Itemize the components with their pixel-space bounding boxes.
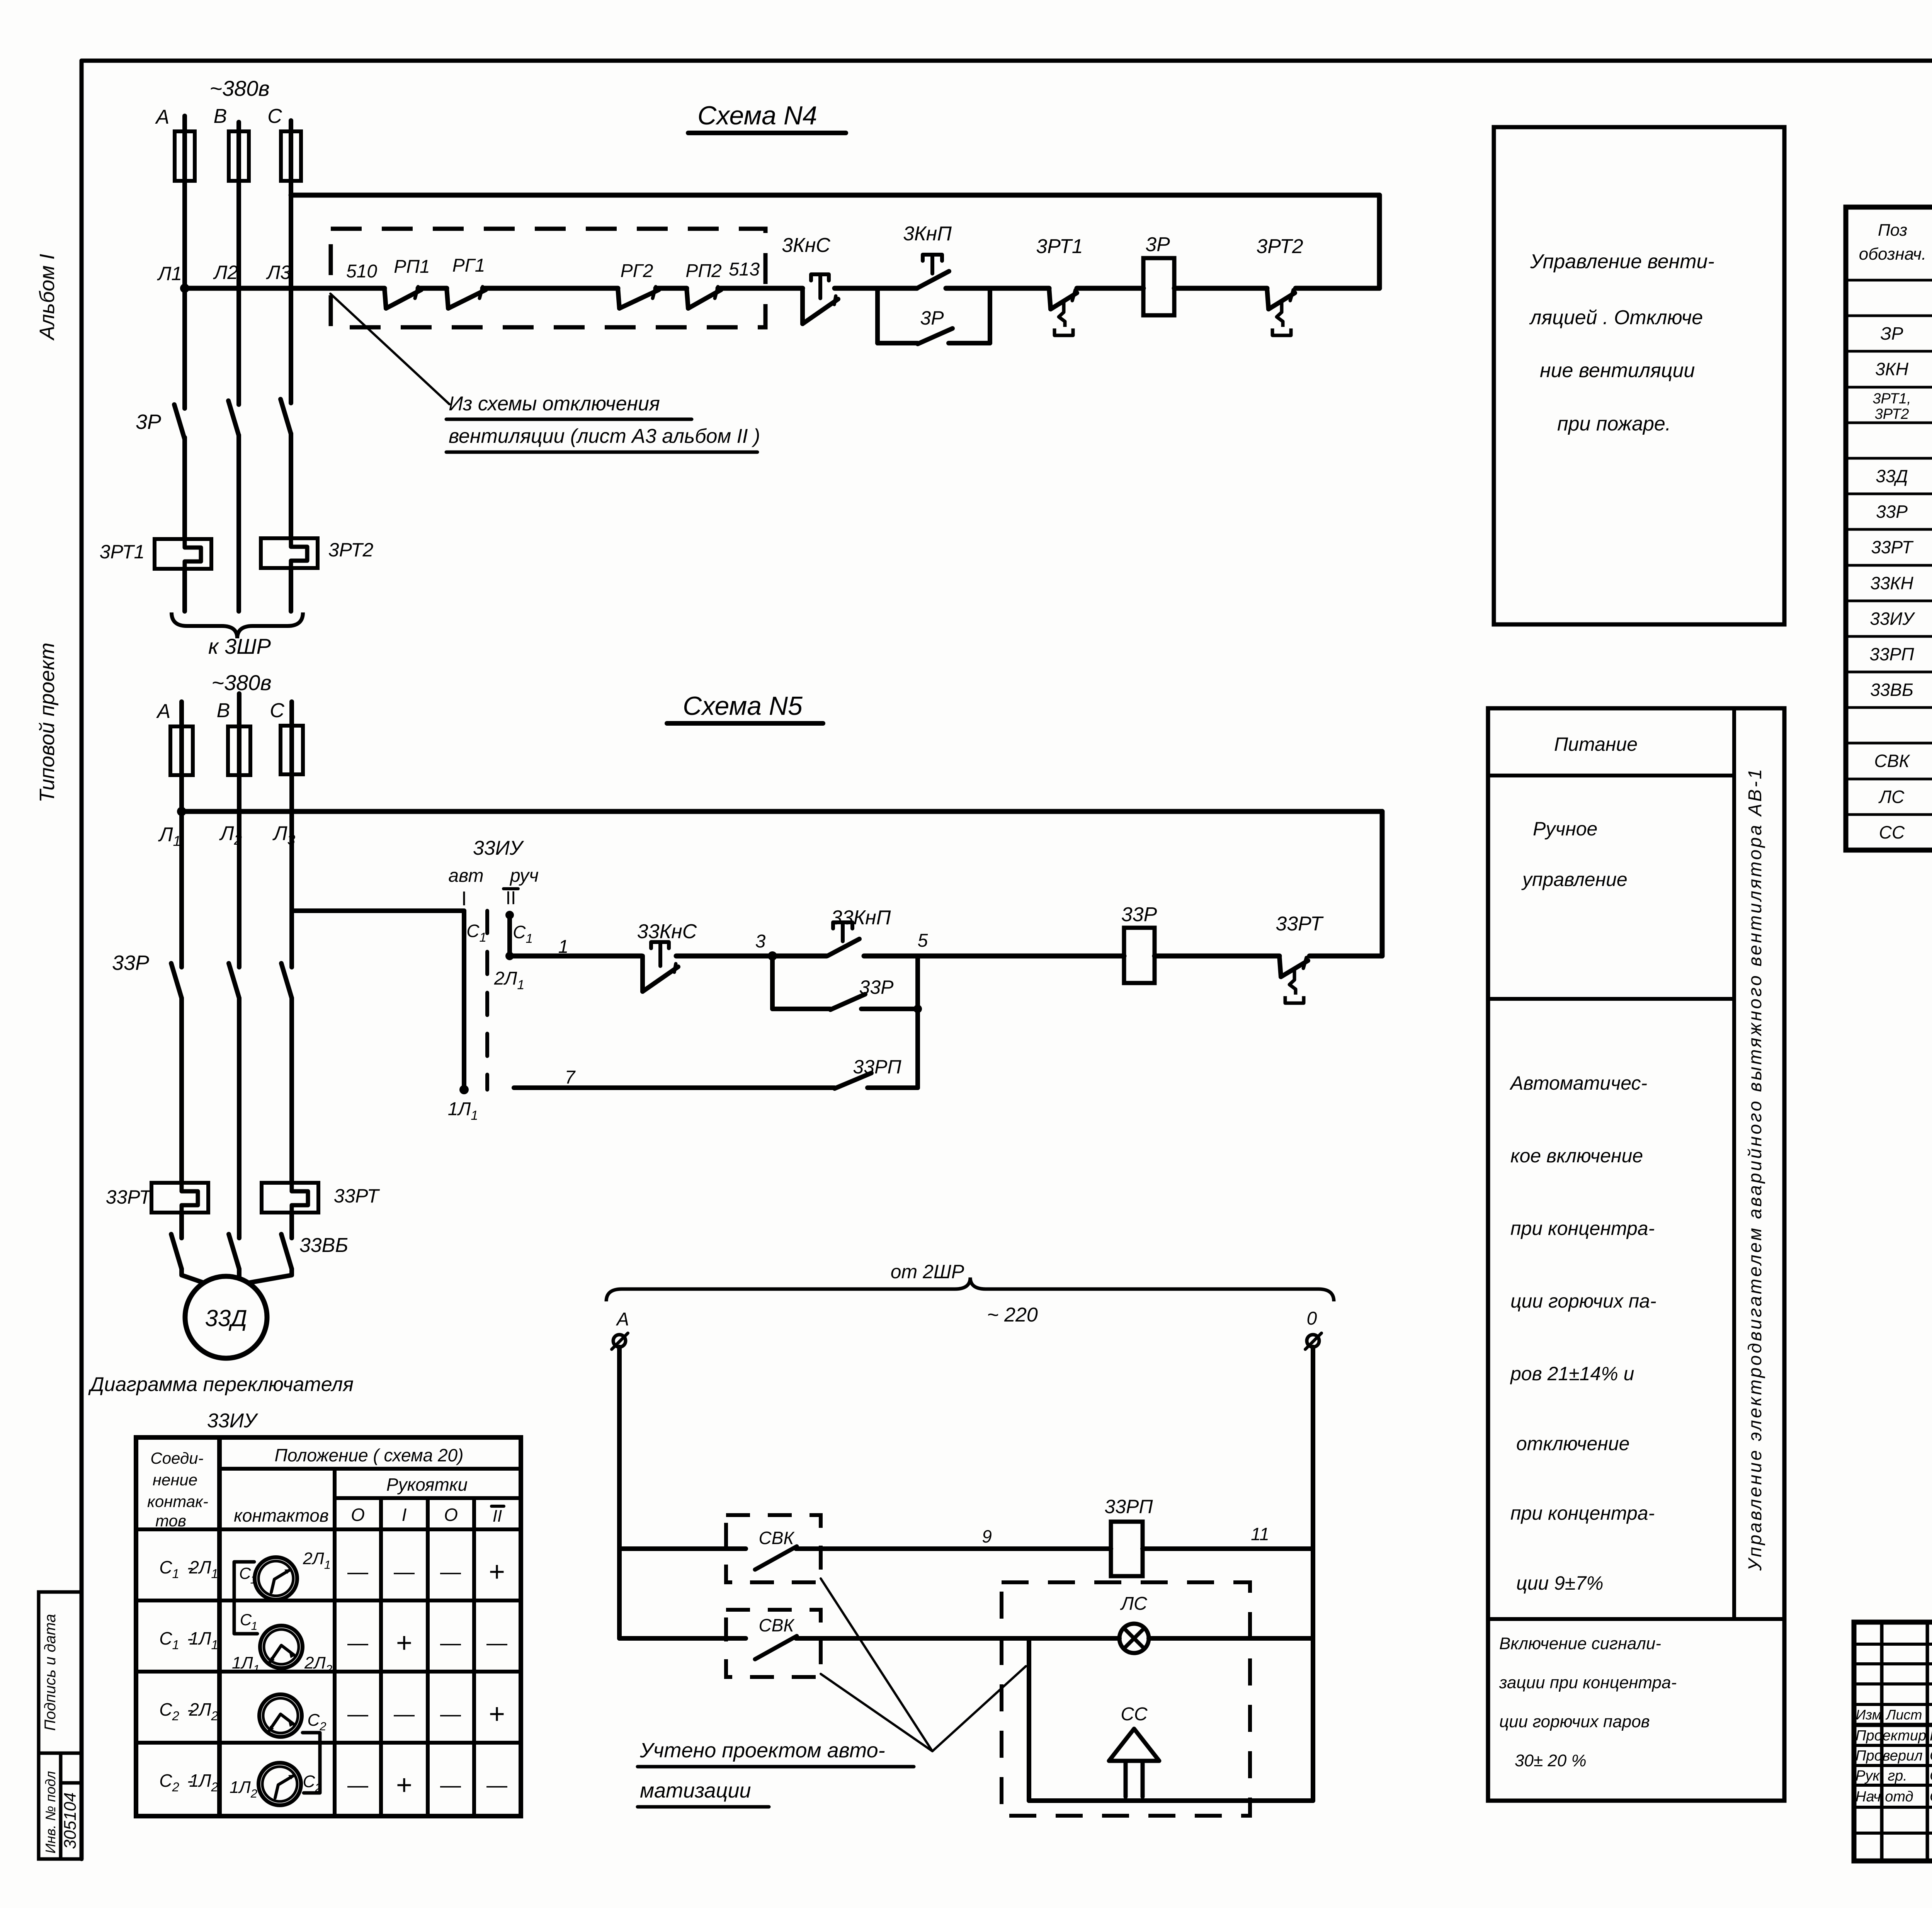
contact РГ2 xyxy=(618,288,619,308)
wire to motor Л1 xyxy=(182,1269,204,1283)
svg-text:+: + xyxy=(396,1628,412,1658)
svg-text:матизации: матизации xyxy=(640,1779,751,1802)
svg-text:513: 513 xyxy=(729,259,760,280)
switch 33ВБ phase Л3 xyxy=(281,1234,292,1269)
svg-text:В: В xyxy=(217,699,230,722)
svg-text:1: 1 xyxy=(250,1573,257,1586)
svg-text:Л3: Л3 xyxy=(266,262,291,283)
svg-text:Л1: Л1 xyxy=(158,823,181,849)
svg-text:управление: управление xyxy=(1521,869,1628,890)
contact 3Р phase Л2 xyxy=(228,401,239,435)
svg-text:Нач.отд: Нач.отд xyxy=(1855,1789,1913,1805)
contact РГ1 xyxy=(447,288,448,308)
svg-text:РГ1: РГ1 xyxy=(452,255,485,276)
svg-text:Инв. № подл: Инв. № подл xyxy=(43,1771,58,1853)
svg-text:Схема N5: Схема N5 xyxy=(683,691,803,721)
dashed boundary box (fire-off circuit) xyxy=(331,229,765,327)
svg-text:33Р: 33Р xyxy=(1121,903,1157,926)
svg-text:2Л1: 2Л1 xyxy=(303,1549,331,1572)
node 3 dot xyxy=(768,951,777,961)
svg-text:~ 220: ~ 220 xyxy=(987,1304,1038,1326)
contact 33РП xyxy=(835,1073,871,1089)
svg-text:СС: СС xyxy=(1121,1704,1148,1725)
link bracket С2 xyxy=(303,1733,320,1793)
svg-text:—: — xyxy=(440,1774,461,1797)
wire to motor Л3 xyxy=(248,1269,292,1283)
svg-text:авт: авт xyxy=(448,866,483,886)
brace к 3ШР xyxy=(172,612,303,638)
fuse phase A (N5) xyxy=(170,726,193,775)
svg-text:С2: С2 xyxy=(159,1771,179,1794)
svg-text:—: — xyxy=(486,1774,507,1797)
fuse phase B (N4) xyxy=(229,131,249,181)
svg-text:СС: СС xyxy=(1879,822,1905,842)
node dot Л1 (N5) xyxy=(177,807,186,816)
wire left drop (A) xyxy=(617,1347,622,1638)
svg-text:Сидельникова: Сидельникова xyxy=(1930,1748,1932,1764)
svg-text:—: — xyxy=(440,1631,461,1655)
svg-text:510: 510 xyxy=(346,261,377,282)
svg-text:—: — xyxy=(347,1774,368,1797)
wire phase B (N5) xyxy=(237,694,241,967)
svg-text:Альбом I: Альбом I xyxy=(36,254,59,341)
svg-text:—: — xyxy=(440,1560,461,1583)
node Л1 junction dot xyxy=(180,284,189,293)
wire Л2 lower (N4) xyxy=(236,435,241,611)
wire control bus (N4) xyxy=(185,286,384,291)
wire to motor Л2 xyxy=(237,1269,241,1277)
fuse phase A (N4) xyxy=(175,131,195,181)
svg-text:С1: С1 xyxy=(159,1628,179,1652)
svg-text:ции горючих па-: ции горючих па- xyxy=(1510,1290,1656,1312)
callout leader (N4) xyxy=(330,294,449,404)
title block frame xyxy=(1854,1622,1932,1861)
svg-text:Лист: Лист xyxy=(1886,1707,1922,1723)
svg-text:Управление венти-: Управление венти- xyxy=(1530,250,1714,273)
wire 3Р self-hold branch xyxy=(875,288,880,343)
switch 33ИУ contact I (авт) xyxy=(462,911,466,1090)
svg-text:~380в: ~380в xyxy=(209,76,269,100)
svg-text:С1: С1 xyxy=(466,921,486,944)
note box 2 (режимы) xyxy=(1488,708,1784,1801)
svg-text:Питание: Питание xyxy=(1554,733,1638,755)
contact 33Р (self-hold) xyxy=(830,994,865,1010)
svg-text:С2: С2 xyxy=(159,1699,179,1723)
svg-text:ции горючих паров: ции горючих паров xyxy=(1499,1712,1650,1731)
thermal contact 3РТ2 xyxy=(1267,288,1269,309)
wire top bus from phase C (N4) xyxy=(291,193,1379,198)
contact СВК 1 xyxy=(755,1546,797,1570)
svg-text:ров 21±14% и: ров 21±14% и xyxy=(1510,1363,1634,1384)
svg-text:33РП: 33РП xyxy=(1869,644,1914,664)
svg-text:отключение: отключение xyxy=(1516,1433,1629,1454)
svg-text:305104: 305104 xyxy=(61,1793,80,1849)
svg-text:А: А xyxy=(155,106,170,128)
svg-text:Автоматичес-: Автоматичес- xyxy=(1509,1072,1647,1094)
svg-text:при концентра-: при концентра- xyxy=(1510,1218,1655,1239)
switch diagram circle С1-1Л1 xyxy=(260,1626,303,1668)
svg-text:33РП: 33РП xyxy=(1104,1496,1153,1517)
switch diagram circle С2-2Л2 xyxy=(259,1694,302,1737)
svg-text:3Р: 3Р xyxy=(920,307,944,329)
wire right drop (0) xyxy=(1311,1347,1315,1801)
svg-text:А: А xyxy=(616,1309,629,1330)
wire phase C (N4) xyxy=(289,121,293,403)
contact СВК 2 xyxy=(755,1636,797,1659)
svg-text:11: 11 xyxy=(1251,1524,1269,1544)
svg-text:нение: нение xyxy=(153,1471,197,1489)
dashed box СВК 2 xyxy=(726,1610,821,1677)
svg-text:Схема N4: Схема N4 xyxy=(697,101,817,130)
wire phase B (N4) xyxy=(236,122,241,405)
svg-text:С1: С1 xyxy=(159,1557,179,1581)
fuse phase C (N5) xyxy=(281,726,303,774)
svg-text:1Л1: 1Л1 xyxy=(448,1099,478,1123)
svg-text:1: 1 xyxy=(251,1620,258,1633)
svg-text:Диаграмма переключателя: Диаграмма переключателя xyxy=(88,1373,354,1396)
pushbutton 3КнП xyxy=(917,271,949,288)
svg-text:2Л1: 2Л1 xyxy=(494,968,525,992)
wire 33Р self-hold branch xyxy=(770,956,775,1009)
wire Л2 mid (N5) xyxy=(237,998,241,1238)
svg-text:3Р: 3Р xyxy=(1145,233,1170,256)
svg-text:С1: С1 xyxy=(513,922,533,946)
link bracket С1 xyxy=(234,1562,257,1634)
coil 33Р xyxy=(1124,928,1155,983)
svg-text:—: — xyxy=(347,1631,368,1655)
svg-text:ЛС: ЛС xyxy=(1120,1594,1147,1614)
svg-text:Учтено проектом авто-: Учтено проектом авто- xyxy=(639,1739,885,1762)
svg-text:~380в: ~380в xyxy=(211,670,271,695)
svg-text:Соеди-: Соеди- xyxy=(150,1449,203,1467)
callout leaders xyxy=(821,1578,932,1751)
pushbutton 33КнП xyxy=(827,939,859,956)
svg-text:Типовой проект: Типовой проект xyxy=(36,643,59,803)
dashed box automation xyxy=(1002,1582,1250,1816)
svg-text:2Л1: 2Л1 xyxy=(189,1557,218,1581)
svg-text:СВК: СВК xyxy=(759,1615,795,1635)
svg-text:I: I xyxy=(461,888,467,910)
svg-text:—: — xyxy=(394,1560,415,1583)
wire phase C (N5) xyxy=(289,702,294,967)
svg-text:1Л1: 1Л1 xyxy=(189,1628,218,1652)
svg-text:33ИУ: 33ИУ xyxy=(473,837,524,859)
contact 3Р (self-hold) xyxy=(918,328,952,344)
note box 1 (Управление вентиляцией) xyxy=(1494,127,1784,624)
svg-text:С: С xyxy=(239,1564,251,1582)
contact РП2 xyxy=(687,288,688,308)
svg-text:РП1: РП1 xyxy=(394,257,430,277)
svg-text:33Р: 33Р xyxy=(112,951,149,975)
svg-text:обознач.: обознач. xyxy=(1859,245,1926,264)
svg-text:33Р: 33Р xyxy=(859,976,894,998)
switch 33ИУ contact II (руч) xyxy=(505,911,514,919)
svg-text:СВК: СВК xyxy=(759,1528,795,1548)
wire rung 1 (N5 control) xyxy=(510,954,642,959)
switch diagram circle С2-1Л2 xyxy=(259,1763,301,1805)
svg-text:Л2: Л2 xyxy=(213,262,238,283)
svg-text:1Л2: 1Л2 xyxy=(189,1771,218,1794)
svg-text:33КнП: 33КнП xyxy=(831,907,891,929)
coil 33РП xyxy=(1111,1522,1143,1576)
svg-text:С: С xyxy=(267,105,282,128)
svg-text:СВК: СВК xyxy=(1874,751,1910,771)
parts table frame xyxy=(1846,207,1932,850)
svg-text:5: 5 xyxy=(918,930,928,951)
svg-text:30± 20 %: 30± 20 % xyxy=(1515,1751,1587,1770)
svg-text:33Д: 33Д xyxy=(1876,466,1908,486)
svg-text:С2: С2 xyxy=(307,1711,326,1733)
svg-text:3РТ1: 3РТ1 xyxy=(100,541,145,563)
svg-text:1Л2: 1Л2 xyxy=(230,1778,257,1800)
svg-text:ЗР: ЗР xyxy=(1881,323,1903,344)
svg-text:I: I xyxy=(402,1505,407,1525)
switch diagram circle С1-2Л1 xyxy=(255,1557,297,1600)
wire Л1 below heater xyxy=(179,1213,184,1238)
svg-text:33ИУ: 33ИУ xyxy=(207,1410,259,1432)
svg-text:33КН: 33КН xyxy=(1870,573,1913,593)
switch 33ВБ phase Л1 xyxy=(171,1234,182,1269)
svg-text:33ВБ: 33ВБ xyxy=(1870,680,1913,700)
thermal contact 3РТ1 xyxy=(1049,288,1051,309)
svg-text:33РТ: 33РТ xyxy=(106,1186,152,1208)
contact 33Р phase Л1 xyxy=(171,963,182,998)
svg-text:3КнС: 3КнС xyxy=(782,234,830,257)
svg-text:33РТ: 33РТ xyxy=(1871,537,1913,557)
svg-text:при концентра-: при концентра- xyxy=(1510,1502,1655,1524)
svg-text:Поз: Поз xyxy=(1878,221,1907,240)
svg-text:3РТ2: 3РТ2 xyxy=(1256,235,1303,258)
svg-text:3КнП: 3КнП xyxy=(903,223,952,245)
svg-text:ции 9±7%: ции 9±7% xyxy=(1516,1572,1604,1594)
thermal relay 33РТ heater (Л1) xyxy=(151,1183,208,1213)
svg-text:3Р: 3Р xyxy=(136,410,161,434)
svg-text:Изм: Изм xyxy=(1856,1707,1882,1723)
svg-text:33РТ: 33РТ xyxy=(1276,913,1324,935)
brace от 2ШР xyxy=(606,1277,1334,1301)
svg-text:+: + xyxy=(489,1699,505,1730)
svg-text:+: + xyxy=(396,1770,412,1801)
svg-text:Рук. гр.: Рук. гр. xyxy=(1855,1768,1907,1784)
svg-text:—: — xyxy=(440,1703,461,1726)
wire rung СВК-33РП xyxy=(619,1546,746,1551)
svg-text:О: О xyxy=(444,1505,458,1525)
svg-text:РГ2: РГ2 xyxy=(621,261,653,281)
svg-text:зации при концентра-: зации при концентра- xyxy=(1499,1673,1677,1692)
svg-text:ЛС: ЛС xyxy=(1878,787,1905,807)
svg-text:руч: руч xyxy=(509,866,539,886)
fuse phase B (N5) xyxy=(228,726,250,775)
svg-text:33Р: 33Р xyxy=(1876,502,1908,522)
wire top bus (N5) xyxy=(182,809,1382,814)
wire Л3 below heater xyxy=(289,1213,294,1238)
svg-text:Подпись и дата: Подпись и дата xyxy=(42,1614,59,1731)
svg-text:кое включение: кое включение xyxy=(1510,1145,1643,1167)
svg-text:Сидельникова: Сидельникова xyxy=(1930,1768,1932,1784)
svg-text:Положение ( схема 20): Положение ( схема 20) xyxy=(275,1445,464,1465)
wire rung 7 (33РП) xyxy=(514,1085,835,1090)
svg-text:II: II xyxy=(493,1507,502,1526)
svg-text:Управление электродвигателем: Управление электродвигателем аварийного … xyxy=(1745,767,1765,1571)
svg-text:О: О xyxy=(351,1505,365,1525)
sheet frame xyxy=(82,59,1932,63)
thermal relay 3РТ1 heater xyxy=(155,539,211,569)
svg-text:к 3ШР: к 3ШР xyxy=(208,634,271,658)
switch 33ИУ dashed link xyxy=(485,911,489,1090)
svg-text:3РТ2: 3РТ2 xyxy=(328,539,374,561)
svg-text:7: 7 xyxy=(565,1067,576,1088)
svg-text:В: В xyxy=(214,105,227,128)
switch table frame xyxy=(136,1437,521,1816)
wire rung СВК-ЛС xyxy=(619,1636,746,1641)
wire Л3 lower (N4) xyxy=(289,434,293,539)
switch 33ВБ phase Л2 xyxy=(229,1234,239,1269)
svg-text:0: 0 xyxy=(1307,1308,1317,1329)
svg-text:—: — xyxy=(347,1560,368,1583)
svg-text:1: 1 xyxy=(558,937,569,957)
svg-text:ляцией . Отключе: ляцией . Отключе xyxy=(1529,306,1703,329)
svg-text:Проектир: Проектир xyxy=(1855,1728,1926,1744)
svg-text:33ИУ: 33ИУ xyxy=(1870,609,1915,629)
svg-text:Из схемы отключения: Из схемы отключения xyxy=(449,393,660,415)
svg-text:2Л2: 2Л2 xyxy=(189,1699,218,1723)
svg-text:Обермейстер: Обермейстер xyxy=(1930,1789,1932,1805)
svg-text:3РТ1: 3РТ1 xyxy=(1036,235,1083,258)
svg-text:3РТ2: 3РТ2 xyxy=(1875,406,1909,422)
wire siren branch xyxy=(1027,1638,1031,1801)
svg-text:при пожаре.: при пожаре. xyxy=(1557,413,1671,435)
svg-text:—: — xyxy=(486,1631,507,1655)
svg-text:33РТ: 33РТ xyxy=(334,1185,380,1207)
pushbutton 33КнС xyxy=(640,956,645,992)
wire Л1 mid (N5) xyxy=(179,998,184,1183)
thermal contact 33РТ xyxy=(1279,956,1281,977)
wire phase A (N5) xyxy=(179,702,184,967)
svg-text:3: 3 xyxy=(755,931,766,952)
svg-text:Рукоятки: Рукоятки xyxy=(386,1475,468,1495)
wire phase A (N4) xyxy=(182,116,187,408)
svg-text:С: С xyxy=(270,699,284,722)
coil 3Р xyxy=(1143,258,1174,315)
svg-text:—: — xyxy=(347,1703,368,1726)
svg-text:33ВБ: 33ВБ xyxy=(299,1234,348,1257)
svg-text:9: 9 xyxy=(982,1526,992,1546)
dashed box СВК 1 xyxy=(726,1515,821,1582)
svg-text:ние вентиляции: ние вентиляции xyxy=(1540,359,1695,382)
margin stamp boxes xyxy=(39,1592,82,1859)
svg-text:—: — xyxy=(394,1703,415,1726)
svg-text:33РП: 33РП xyxy=(853,1056,901,1078)
contact 3Р phase Л1 xyxy=(174,405,185,439)
thermal relay 3РТ2 heater xyxy=(261,538,318,568)
svg-text:Л1: Л1 xyxy=(157,263,182,284)
svg-text:Ручное: Ручное xyxy=(1533,818,1597,840)
wire Л3 mid (N5) xyxy=(289,998,294,1183)
svg-text:А: А xyxy=(156,700,171,723)
contact 33Р phase Л2 xyxy=(229,963,239,998)
svg-text:РП2: РП2 xyxy=(685,261,722,281)
motor 33Д xyxy=(185,1276,267,1358)
svg-text:от 2ШР: от 2ШР xyxy=(891,1261,964,1282)
pushbutton 3КнС xyxy=(800,288,805,324)
contact 3Р phase Л3 xyxy=(281,399,291,434)
svg-text:II: II xyxy=(506,888,516,908)
svg-text:33КнС: 33КнС xyxy=(637,920,697,943)
wire node5 vertical xyxy=(915,956,920,1088)
svg-text:Проверил: Проверил xyxy=(1855,1748,1923,1764)
svg-text:33Д: 33Д xyxy=(205,1305,247,1331)
svg-text:вентиляции (лист А3 альбом II: вентиляции (лист А3 альбом II ) xyxy=(449,425,760,447)
thermal relay 33РТ heater (Л3) xyxy=(262,1183,318,1213)
svg-text:тов: тов xyxy=(155,1512,186,1530)
svg-text:3КН: 3КН xyxy=(1875,359,1909,379)
svg-text:контак-: контак- xyxy=(147,1492,208,1510)
contact 33Р phase Л3 xyxy=(281,963,292,998)
svg-text:Наумова: Наумова xyxy=(1930,1727,1932,1744)
wire Л1 lower (N4) xyxy=(182,437,187,540)
wire branch Л3 to switch 33ИУ xyxy=(292,908,464,913)
fuse phase C (N4) xyxy=(281,131,301,181)
svg-text:контактов: контактов xyxy=(234,1505,329,1526)
svg-text:С: С xyxy=(240,1611,252,1629)
contact РП1 xyxy=(384,288,386,308)
svg-text:+: + xyxy=(489,1556,505,1587)
svg-text:3РТ1,: 3РТ1, xyxy=(1872,391,1911,407)
svg-text:Включение сигнали-: Включение сигнали- xyxy=(1499,1634,1661,1653)
